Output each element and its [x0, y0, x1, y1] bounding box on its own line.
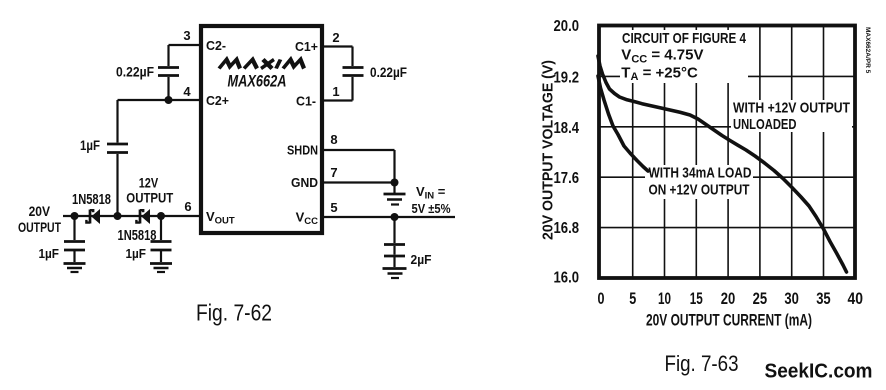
- svg-text:5: 5: [629, 289, 636, 308]
- node VIN junction: [391, 213, 399, 221]
- svg-text:Fig. 7-63: Fig. 7-63: [665, 351, 739, 376]
- pin label VOUT: [206, 209, 235, 227]
- pin 8 number: [330, 132, 337, 147]
- value label 1N5818 (D1): [72, 192, 111, 208]
- curve: with +12V output unloaded: [598, 56, 847, 272]
- pin label VCC: [296, 210, 319, 228]
- curve label WITH +12V OUTPUT UNLOADED: [733, 100, 850, 133]
- svg-text:10: 10: [658, 289, 671, 308]
- svg-text:ON +12V OUTPUT: ON +12V OUTPUT: [649, 181, 750, 198]
- MAXIM logo inside U1: [219, 60, 306, 69]
- svg-text:GND: GND: [291, 175, 318, 190]
- svg-text:1: 1: [332, 84, 339, 99]
- wire pin4 C2+: [118, 99, 202, 101]
- pin 4 number: [183, 84, 191, 99]
- node GND junction: [391, 179, 399, 187]
- pin 1 number: [332, 84, 339, 99]
- wire pin3 to C2 cap: [169, 44, 202, 46]
- svg-text:WITH +12V OUTPUT: WITH +12V OUTPUT: [733, 100, 850, 117]
- value label 1N5818 (D2): [118, 228, 157, 244]
- svg-text:8: 8: [330, 132, 337, 147]
- watermark SeekIC.com: [765, 361, 873, 383]
- x axis tick labels: [598, 289, 864, 308]
- pin label C2-: [206, 38, 226, 53]
- value label 1uF (12V): [126, 246, 147, 261]
- wire C2 cap top lead: [167, 45, 169, 66]
- svg-text:20V OUTPUT CURRENT (mA): 20V OUTPUT CURRENT (mA): [646, 312, 812, 330]
- svg-text:WITH 34mA LOAD: WITH 34mA LOAD: [649, 165, 752, 182]
- svg-text:17.6: 17.6: [554, 170, 580, 187]
- caption Fig. 7-62: [196, 300, 272, 326]
- svg-text:1µF: 1µF: [126, 246, 147, 261]
- wire pin5 VCC to VIN: [322, 216, 455, 218]
- capacitor 1uF (flying): [107, 144, 128, 153]
- label background unloaded: [731, 100, 852, 132]
- pin label SHDN: [287, 143, 318, 158]
- curve: with 34mA load: [598, 76, 648, 171]
- pin label GND: [291, 175, 318, 190]
- wire pin2 C1+: [322, 45, 353, 47]
- value label 0.22uF (C1): [370, 65, 407, 80]
- curve label WITH 34mA LOAD ON +12V OUTPUT: [649, 165, 752, 199]
- wire 1uF down to 12V node: [116, 154, 118, 216]
- svg-text:40: 40: [848, 289, 864, 308]
- svg-text:CIRCUIT OF FIGURE 4: CIRCUIT OF FIGURE 4: [622, 30, 747, 47]
- svg-text:20.0: 20.0: [554, 18, 580, 35]
- svg-text:OUTPUT: OUTPUT: [18, 219, 61, 235]
- pin 3 number: [183, 28, 190, 43]
- svg-text:C1+: C1+: [295, 39, 318, 54]
- capacitor C1 0.22uF: [343, 68, 364, 76]
- svg-text:35: 35: [816, 289, 831, 308]
- value label 2uF: [411, 252, 432, 267]
- svg-text:20V: 20V: [29, 203, 51, 219]
- svg-text:3: 3: [183, 28, 190, 43]
- svg-text:0: 0: [598, 289, 605, 308]
- wire output rail: [63, 215, 201, 217]
- value label 0.22uF (C2): [116, 65, 154, 80]
- svg-text:C2+: C2+: [206, 93, 229, 108]
- svg-text:1µF: 1µF: [39, 246, 60, 261]
- diode D1 1N5818: [86, 209, 100, 224]
- svg-text:16.8: 16.8: [554, 220, 580, 237]
- net label 12V OUTPUT: [126, 175, 173, 206]
- svg-text:16.0: 16.0: [554, 269, 580, 286]
- pin 2 number: [332, 30, 339, 45]
- wire pin7 GND: [322, 181, 395, 183]
- svg-text:2µF: 2µF: [411, 252, 432, 267]
- IC U1 MAX662A body: [201, 26, 322, 233]
- svg-text:MAX662A/PR 5: MAX662A/PR 5: [864, 27, 871, 74]
- node C2+/cap junction: [165, 96, 173, 104]
- svg-text:MAX662A: MAX662A: [228, 72, 287, 91]
- svg-text:UNLOADED: UNLOADED: [733, 116, 797, 133]
- capacitor C2 0.22uF: [158, 68, 179, 76]
- pin 6 number: [184, 199, 191, 214]
- svg-text:1N5818: 1N5818: [72, 192, 111, 208]
- svg-text:30: 30: [784, 289, 799, 308]
- pin 5 number: [330, 200, 337, 215]
- svg-text:18.4: 18.4: [554, 120, 580, 137]
- svg-text:OUTPUT: OUTPUT: [126, 190, 173, 206]
- wire pin8 SHDN: [322, 150, 395, 183]
- svg-text:1µF: 1µF: [80, 138, 100, 153]
- pin label C2+: [206, 93, 229, 108]
- node 12V output junction: [114, 212, 122, 220]
- diode D2 1N5818: [136, 209, 150, 224]
- svg-text:SeekIC.com: SeekIC.com: [765, 361, 873, 383]
- grid horizontal lines: [600, 76, 855, 227]
- wire C1 bottom lead: [351, 77, 353, 101]
- svg-text:6: 6: [184, 199, 191, 214]
- label background 34mA: [645, 165, 753, 199]
- svg-text:20: 20: [721, 289, 736, 308]
- net label VIN = 5V +/-5%: [412, 184, 451, 216]
- node VOUT junction: [157, 212, 165, 220]
- svg-text:12V: 12V: [139, 175, 159, 191]
- svg-text:Fig. 7-62: Fig. 7-62: [196, 300, 272, 326]
- legend background box: [620, 30, 748, 83]
- svg-text:25: 25: [753, 289, 768, 308]
- ground (12V cap): [150, 264, 172, 273]
- y axis title: [541, 60, 557, 240]
- caption Fig. 7-63: [665, 351, 739, 376]
- net label 20V OUTPUT: [18, 203, 61, 235]
- svg-text:19.2: 19.2: [554, 69, 580, 86]
- pin label C1-: [296, 94, 316, 109]
- pin label C1+: [295, 39, 318, 54]
- svg-text:5: 5: [330, 200, 337, 215]
- svg-text:15: 15: [690, 289, 703, 308]
- part name MAX662A: [228, 72, 287, 91]
- svg-text:SHDN: SHDN: [287, 143, 318, 158]
- legend text CIRCUIT OF FIGURE 4: [621, 30, 746, 83]
- svg-text:2: 2: [332, 30, 339, 45]
- wire C2+ down to 1uF: [116, 100, 118, 143]
- pin 7 number: [330, 165, 337, 180]
- ground (20V cap): [64, 264, 86, 273]
- wire C1 top lead: [351, 47, 353, 67]
- svg-text:20V OUTPUT VOLTAGE (V): 20V OUTPUT VOLTAGE (V): [541, 60, 557, 240]
- x axis title: [646, 312, 812, 330]
- svg-text:C1-: C1-: [296, 94, 316, 109]
- vertical doc number: [864, 27, 871, 74]
- value label 1uF (20V): [39, 246, 60, 261]
- plot border: [599, 26, 855, 279]
- y axis tick labels: [554, 18, 580, 286]
- grid vertical lines: [633, 26, 824, 279]
- svg-text:C2-: C2-: [206, 38, 226, 53]
- svg-text:4: 4: [183, 84, 191, 99]
- wire pin1 C1-: [322, 99, 353, 101]
- svg-text:7: 7: [330, 165, 337, 180]
- svg-text:5V ±5%: 5V ±5%: [412, 201, 451, 216]
- ground (2uF): [383, 269, 407, 279]
- wire C2 cap bottom lead: [167, 77, 169, 100]
- node 20V output junction: [71, 212, 79, 220]
- svg-text:0.22µF: 0.22µF: [370, 65, 407, 80]
- ground (GND pin): [384, 183, 406, 205]
- capacitor 2uF: [384, 217, 405, 267]
- capacitor 1uF at 12V output: [151, 216, 172, 262]
- capacitor 1uF at 20V output: [64, 216, 85, 262]
- value label 1uF (flying): [80, 138, 100, 153]
- svg-text:0.22µF: 0.22µF: [116, 65, 154, 80]
